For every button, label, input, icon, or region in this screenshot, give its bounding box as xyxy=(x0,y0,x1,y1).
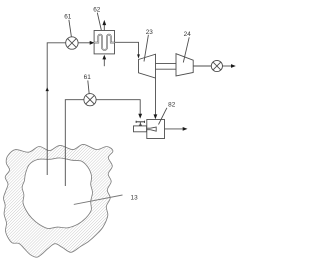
arrow into turbine xyxy=(137,54,140,58)
wire/arrow outlet right xyxy=(223,65,232,67)
heat exchanger U1 box 62 xyxy=(94,31,114,54)
wire injection-well line xyxy=(65,100,84,186)
wire valve 61 to fuel feed xyxy=(96,100,140,115)
wire turbine exhaust down to combustor xyxy=(155,78,157,115)
leader line 82 xyxy=(159,108,167,125)
svg-text:61: 61 xyxy=(84,74,92,81)
arrow into heat exchanger xyxy=(90,41,95,45)
wire/arrow combustor outlet right xyxy=(165,128,184,130)
svg-text:62: 62 xyxy=(93,6,101,13)
leader line 13 xyxy=(74,195,123,204)
reservoir inner cavity 13 xyxy=(22,158,92,229)
combustor 82 xyxy=(147,120,165,139)
burner nozzle inside combustor xyxy=(147,127,156,131)
wire/arrow up into heat exchanger bottom xyxy=(103,59,105,66)
svg-text:13: 13 xyxy=(131,194,139,201)
leader line 61 top xyxy=(69,20,72,37)
leader line 61 middle xyxy=(88,80,89,94)
valve (right outlet) xyxy=(211,60,222,71)
wire compressor to valve xyxy=(193,65,211,67)
svg-text:23: 23 xyxy=(146,29,154,36)
shaft turbine-compressor xyxy=(156,63,177,65)
svg-text:24: 24 xyxy=(184,31,192,38)
reservoir outer boundary 13 (hatched formation) xyxy=(3,144,112,257)
flow arrow up on riser xyxy=(46,87,49,91)
leader line 24 xyxy=(183,37,189,62)
arrow down into fuel valve xyxy=(138,114,142,119)
svg-text:82: 82 xyxy=(168,101,176,108)
fuel valve flange symbol xyxy=(136,121,145,126)
wire/arrow up out of heat exchanger top xyxy=(103,25,105,31)
wire valve61 to heat exchanger xyxy=(78,42,91,44)
turbine 23 xyxy=(139,54,156,78)
wire heat exchanger to turbine inlet xyxy=(115,42,139,54)
heat exchanger serpentine coil xyxy=(94,35,114,50)
compressor 24 xyxy=(176,54,193,76)
fuel manifold box xyxy=(134,126,147,132)
leader line 23 xyxy=(144,35,148,62)
leader line 62 xyxy=(97,13,101,30)
valve 61 (top) xyxy=(66,37,78,49)
svg-text:61: 61 xyxy=(64,14,72,21)
valve 61 (middle) xyxy=(84,94,96,106)
wire production well riser xyxy=(47,43,65,175)
